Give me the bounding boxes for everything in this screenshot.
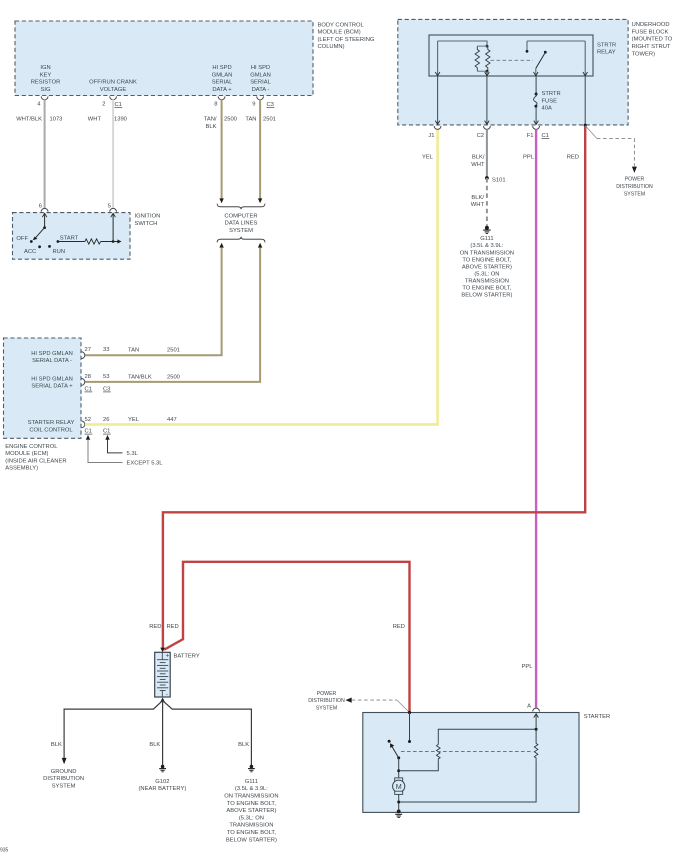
wire WHT 1390 (BCM pin 2 to ignition switch pin 5) (112, 100, 114, 209)
ignition pin 5 label (108, 204, 111, 210)
svg-text:53: 53 (103, 374, 109, 380)
label ACC (24, 249, 36, 255)
svg-text:2500: 2500 (167, 375, 180, 381)
arrow into computer data lines (left) (219, 198, 223, 203)
wire RED (B+ down, across, to battery) (163, 127, 585, 649)
svg-text:RED: RED (167, 624, 179, 630)
wire label RED (battery drop) (149, 624, 161, 630)
starter case ground symbol (395, 814, 402, 817)
ignition pin 6 entry arrow (42, 213, 47, 217)
arrow to ground distribution system (62, 758, 67, 764)
circuit label 1073 (50, 117, 63, 123)
wire from START to resistor (58, 241, 85, 243)
svg-text:TO ENGINE BOLT,: TO ENGINE BOLT, (227, 830, 276, 836)
svg-text:SYSTEM: SYSTEM (624, 191, 645, 197)
wire label WHT (88, 117, 102, 123)
EXCEPT 5.3L callout arrow (pin 52) (86, 435, 123, 463)
ignition switch label (135, 214, 161, 227)
wire TAN/BLK 2500 (BCM pin 8 down to data lines) (221, 100, 223, 199)
svg-text:28: 28 (85, 374, 91, 380)
hold-in coil lead to ground bus (399, 760, 536, 802)
svg-text:BLK/: BLK/ (471, 195, 484, 201)
svg-text:SYSTEM: SYSTEM (52, 783, 76, 789)
svg-text:SERIAL: SERIAL (212, 80, 233, 86)
label START (60, 235, 79, 241)
ground G111 (mid) symbol (483, 226, 491, 234)
svg-text:IGNITION: IGNITION (135, 214, 161, 220)
svg-text:WHT: WHT (88, 117, 102, 123)
relay switch blade (536, 51, 547, 69)
wire label RED (second battery lead) (167, 624, 179, 630)
power distribution system text (bottom) (308, 691, 345, 712)
relay coil bottom node (486, 70, 489, 73)
svg-text:2500: 2500 (224, 117, 237, 123)
svg-text:KEY: KEY (40, 72, 52, 78)
svg-text:OFF/RUN CRANK: OFF/RUN CRANK (89, 80, 137, 86)
svg-text:F1: F1 (527, 133, 534, 139)
node: ignition blade pivot (43, 226, 46, 229)
fuse block drop line F1 upper (535, 76, 537, 93)
relay pin B+ internal lead with arrow (583, 41, 588, 76)
node A junction (535, 728, 538, 731)
node B+ at fuse block edge (584, 124, 587, 127)
node solenoid fixed contact right (408, 740, 411, 743)
contact ACC (38, 245, 41, 248)
starter pin A internal lead (535, 714, 537, 730)
svg-text:POWER: POWER (625, 177, 645, 183)
battery negative junction wires (64, 701, 251, 765)
svg-text:MODULE (ECM): MODULE (ECM) (5, 451, 48, 457)
BCM internal label: OFF/RUN CRANK VOLTAGE (89, 80, 137, 93)
ECM pin 28/53 labels (85, 374, 110, 380)
solenoid switch lead down to motor (398, 758, 400, 778)
arrow up from data lines (right) (258, 243, 262, 248)
wire TAN 2501 (BCM pin 9 down to data lines) (259, 100, 261, 199)
contact OFF (30, 240, 33, 243)
svg-text:ENGINE CONTROL: ENGINE CONTROL (5, 444, 58, 450)
fuse block pin J1 cup (434, 126, 441, 129)
hold-in coil winding (534, 742, 538, 760)
svg-text:WHT: WHT (471, 202, 485, 208)
svg-text:TRANSMISSION: TRANSMISSION (229, 823, 273, 829)
wire BLK/WHT (C2 down to S101) (486, 129, 488, 178)
svg-text:G111: G111 (245, 779, 258, 785)
ECM pin 27 cup (81, 352, 84, 359)
svg-text:TAN/BLK: TAN/BLK (128, 375, 152, 381)
pull-in coil winding (437, 743, 441, 761)
wire resistor to pin 5 node (101, 241, 113, 243)
svg-text:(5.3L: ON: (5.3L: ON (474, 271, 499, 277)
ECM internal label: STARTER RELAY COIL CONTROL (28, 420, 75, 433)
wire label YEL row 3 (128, 417, 140, 423)
svg-text:52: 52 (85, 417, 91, 423)
svg-text:TAN/: TAN/ (204, 117, 217, 123)
contact RUN (48, 245, 51, 248)
wire label TAN/BLK row 2 (128, 375, 152, 381)
pin label F1 (527, 133, 534, 139)
svg-text:TAN: TAN (128, 348, 139, 354)
ground G102 symbol (159, 765, 166, 772)
wire label WHT/BLK (16, 117, 42, 123)
wire label BLK/WHT mid (471, 195, 485, 208)
svg-text:COLUMN): COLUMN) (318, 44, 345, 50)
svg-text:ON TRANSMISSION: ON TRANSMISSION (460, 250, 514, 256)
relay pin J1 internal lead with arrow (435, 41, 440, 76)
ignition pin 6 cup (41, 208, 48, 211)
ECM internal label: HI SPD GMLAN SERIAL DATA - (31, 351, 73, 364)
svg-text:2: 2 (102, 102, 105, 108)
svg-text:+: + (166, 652, 170, 659)
svg-text:COMPUTER: COMPUTER (224, 213, 257, 219)
node switch/coil junction (397, 769, 400, 772)
svg-text:YEL: YEL (128, 417, 140, 423)
label OFF (16, 236, 28, 242)
svg-text:TO ENGINE BOLT,: TO ENGINE BOLT, (227, 801, 276, 807)
starter label (584, 714, 611, 720)
svg-text:WHT: WHT (471, 162, 485, 168)
page number text (0, 848, 9, 853)
svg-text:BLK: BLK (149, 742, 160, 748)
relay coil (dual zigzag windings) (475, 46, 490, 71)
wire PPL (F1 down to starter A) (535, 129, 537, 708)
BCM pin 2 label (102, 102, 105, 108)
svg-text:RED: RED (393, 624, 405, 630)
arrow into battery positive (160, 648, 165, 653)
svg-text:SYSTEM: SYSTEM (229, 228, 253, 234)
wire TAN/BLK 2500 (data lines down to ECM pin 28) (85, 248, 260, 382)
svg-text:A: A (527, 704, 531, 710)
starter box (363, 713, 579, 813)
ECM pin 27/33 labels (85, 347, 110, 353)
svg-text:SERIAL DATA -: SERIAL DATA - (32, 358, 72, 364)
BCM internal label: HI SPD GMLAN SERIAL DATA + (212, 65, 233, 93)
wire label TAN (245, 117, 256, 123)
solenoid switch blade with arrowhead (390, 743, 400, 759)
svg-text:M: M (396, 782, 402, 791)
ignition pin 5 entry arrow (111, 213, 116, 217)
starter pin A entry arrow (534, 714, 539, 718)
ignition pin 6 label (39, 204, 42, 210)
svg-text:6: 6 (39, 204, 42, 210)
svg-text:(3.5L & 3.9L:: (3.5L & 3.9L: (470, 243, 503, 249)
BCM connector C1 label (115, 102, 123, 108)
wire label RED (starter feed) (393, 624, 405, 630)
label 5.3L (127, 451, 139, 457)
fuse block drop line B+ (584, 76, 586, 125)
svg-text:DATA +: DATA + (212, 87, 232, 93)
svg-text:27: 27 (85, 347, 91, 353)
circuit label 2501 (263, 117, 276, 123)
svg-text:1073: 1073 (50, 117, 63, 123)
wire label PPL below F1 (523, 155, 535, 161)
pin label C2 (477, 133, 484, 139)
motor lead down (398, 794, 400, 811)
svg-text:J1: J1 (428, 133, 434, 139)
power distribution callout (bottom) (345, 698, 409, 712)
ECM title text (5, 444, 66, 472)
svg-text:(MOUNTED TO: (MOUNTED TO (632, 37, 673, 43)
svg-text:G111: G111 (480, 236, 493, 242)
svg-text:RELAY: RELAY (597, 50, 616, 56)
ground G111 (bottom right) symbol (248, 765, 255, 772)
svg-text:-: - (166, 692, 168, 699)
wire label YEL below J1 (422, 155, 434, 161)
stub arrow right of pin 5 node (113, 239, 121, 243)
svg-text:1390: 1390 (114, 117, 127, 123)
circuit label 447 row 3 (167, 417, 177, 423)
relay top wire right (527, 40, 585, 42)
solenoid linkage dashed (401, 751, 533, 753)
svg-text:IGN: IGN (40, 65, 50, 71)
BCM internal label: HI SPD GMLAN SERIAL DATA - (250, 65, 271, 93)
brace upper (computer data lines) (217, 204, 265, 210)
computer data lines system text (224, 213, 257, 234)
contact START (57, 240, 60, 243)
node at pin 5 lead (112, 240, 115, 243)
ignition pin 6 internal lead (44, 213, 46, 227)
ECM connector labels C1 C3 row 2 (85, 387, 111, 393)
ECM pin 28 cup (81, 379, 84, 386)
svg-text:SERIAL DATA +: SERIAL DATA + (31, 384, 73, 390)
svg-text:POWER: POWER (317, 691, 337, 697)
svg-text:HI SPD GMLAN: HI SPD GMLAN (31, 351, 73, 357)
svg-text:ASSEMBLY): ASSEMBLY) (5, 466, 38, 472)
svg-text:COIL CONTROL: COIL CONTROL (29, 427, 73, 433)
fuse block drop line F1 lower (534, 106, 539, 124)
battery (155, 652, 171, 698)
starter pin A cup (533, 708, 540, 711)
ignition switch box (13, 213, 131, 260)
starter case ground node (397, 810, 401, 814)
svg-text:FUSE BLOCK: FUSE BLOCK (632, 29, 669, 35)
svg-text:FUSE: FUSE (542, 98, 558, 104)
pull-in coil lead to A junction (438, 729, 536, 742)
svg-text:26: 26 (103, 417, 109, 423)
STRTR FUSE 40A fuse symbol (534, 93, 538, 108)
svg-text:RED: RED (567, 155, 579, 161)
svg-text:DATA -: DATA - (252, 87, 270, 93)
svg-text:DISTRIBUTION: DISTRIBUTION (308, 698, 345, 704)
BCM internal label: IGN KEY RESISTOR SIG (31, 65, 61, 93)
BCM title text (318, 22, 375, 50)
node red feed at starter edge (408, 711, 411, 714)
svg-text:4: 4 (37, 102, 41, 108)
svg-text:(INSIDE AIR CLEANER: (INSIDE AIR CLEANER (5, 458, 66, 464)
svg-text:ACC: ACC (24, 249, 36, 255)
starter solenoid feed lead (409, 713, 411, 742)
5.3L callout arrow (pin 26) (105, 435, 122, 453)
wire junction to pull-in coil (399, 760, 439, 771)
body control module BCM box (15, 21, 313, 96)
svg-text:OFF: OFF (16, 236, 28, 242)
wire label BLK/WHT below C2 (471, 155, 485, 168)
starter relay box (429, 35, 593, 76)
BCM connector C3 label (267, 102, 275, 108)
svg-text:TRANSMISSION: TRANSMISSION (465, 279, 509, 285)
splice S101 (485, 176, 489, 180)
BCM pin 8 label (214, 102, 217, 108)
relay top wire left (438, 41, 487, 46)
ground G111 (mid) text (460, 236, 514, 298)
svg-text:DISTRIBUTION: DISTRIBUTION (616, 184, 653, 190)
svg-text:GROUND: GROUND (51, 769, 77, 775)
ECM connector labels C1 C1 row 3 (85, 429, 111, 435)
svg-text:ABOVE STARTER): ABOVE STARTER) (226, 808, 276, 814)
svg-text:EXCEPT 5.3L: EXCEPT 5.3L (127, 460, 164, 466)
brace lower (computer data lines) (217, 237, 265, 243)
ignition pin 5 internal lead (112, 213, 114, 241)
label BLK (center) (149, 742, 160, 748)
STRTR FUSE 40A label (542, 91, 561, 112)
ground distribution system text (43, 769, 84, 790)
svg-text:STRTR: STRTR (542, 91, 561, 97)
solenoid fixed contact left (388, 740, 391, 743)
svg-text:(3.5L & 3.9L:: (3.5L & 3.9L: (235, 786, 268, 792)
svg-text:ON TRANSMISSION: ON TRANSMISSION (224, 794, 278, 800)
svg-text:MODULE (BCM): MODULE (BCM) (318, 30, 361, 36)
svg-text:40A: 40A (542, 106, 552, 112)
svg-text:(LEFT OF STEERING: (LEFT OF STEERING (318, 37, 375, 43)
arrow up from data lines (left) (219, 243, 223, 248)
connector label C1 (542, 133, 550, 139)
label BLK (right) (238, 742, 249, 748)
circuit label 2501 row 1 (167, 348, 180, 354)
svg-text:BELOW STARTER): BELOW STARTER) (226, 837, 277, 843)
svg-text:HI SPD: HI SPD (212, 65, 231, 71)
BCM pin 9 label (252, 102, 255, 108)
svg-text:447: 447 (167, 417, 177, 423)
pin label J1 (428, 133, 434, 139)
arrow into battery negative (160, 698, 165, 703)
label RUN (53, 249, 66, 255)
wire YEL 447 (ECM to fuse block J1) (85, 129, 438, 424)
wire label TAN row 1 (128, 348, 139, 354)
relay switch lead to pin F1 with arrow (534, 68, 539, 76)
svg-text:SYSTEM: SYSTEM (316, 705, 337, 711)
svg-text:BELOW STARTER): BELOW STARTER) (461, 293, 512, 299)
wire label TAN/BLK (204, 117, 217, 130)
engine control module ECM box (4, 338, 82, 438)
circuit label 1390 (114, 117, 127, 123)
svg-text:TO ENGINE BOLT,: TO ENGINE BOLT, (462, 257, 511, 263)
svg-text:STARTER RELAY: STARTER RELAY (28, 420, 75, 426)
ground G111 (bottom) text (224, 779, 278, 843)
svg-text:HI SPD GMLAN: HI SPD GMLAN (31, 376, 73, 382)
ECM pin 52/26 labels (85, 417, 110, 423)
ignition pin 5 cup (110, 208, 117, 211)
ground G102 text (139, 779, 187, 792)
svg-text:33: 33 (103, 347, 109, 353)
svg-text:2501: 2501 (263, 117, 276, 123)
relay coil lead to pin C2 with arrow (485, 71, 490, 76)
underhood fuse block title (632, 22, 673, 57)
BCM pin 4 label (37, 102, 41, 108)
wire WHT/BLK 1073 (BCM pin 4 to ignition switch pin 6) (44, 100, 46, 209)
svg-text:GMLAN: GMLAN (250, 72, 271, 78)
svg-text:TAN: TAN (245, 117, 256, 123)
svg-text:TOWER): TOWER) (632, 51, 655, 57)
underhood fuse block box (398, 19, 628, 125)
BCM pin 9 cup (257, 96, 264, 99)
relay coil top node (486, 45, 489, 48)
label EXCEPT 5.3L (127, 460, 164, 466)
svg-text:G102: G102 (155, 779, 169, 785)
svg-text:RUN: RUN (53, 249, 66, 255)
svg-text:(NEAR BATTERY): (NEAR BATTERY) (139, 786, 187, 792)
svg-text:WHT/BLK: WHT/BLK (16, 117, 42, 123)
label S101 (492, 178, 506, 184)
BCM pin 2 cup (110, 96, 117, 99)
svg-text:BLK: BLK (51, 742, 62, 748)
svg-text:8: 8 (214, 102, 217, 108)
power distribution callout top right: diagonal + dashed route (585, 126, 637, 173)
fuse block pin F1 cup (533, 126, 540, 129)
hold-in coil top lead (535, 729, 537, 742)
svg-text:2501: 2501 (167, 348, 180, 354)
svg-text:TO ENGINE BOLT,: TO ENGINE BOLT, (462, 286, 511, 292)
starter pin A label (527, 704, 531, 710)
svg-text:BODY CONTROL: BODY CONTROL (318, 22, 365, 28)
svg-text:HI SPD: HI SPD (251, 65, 270, 71)
circuit label 2500 (224, 117, 237, 123)
fuse block drop line J1 (435, 76, 440, 124)
power distribution system text (top right) (616, 177, 653, 198)
svg-text:DISTRIBUTION: DISTRIBUTION (43, 776, 84, 782)
svg-text:BLK: BLK (206, 124, 217, 130)
svg-text:5.3L: 5.3L (127, 451, 139, 457)
svg-text:BLK: BLK (238, 742, 249, 748)
fuse block drop line C2 (485, 76, 490, 124)
svg-text:RED: RED (149, 624, 161, 630)
BCM pin 4 cup (41, 96, 48, 99)
svg-text:VOLTAGE: VOLTAGE (100, 87, 127, 93)
svg-text:SWITCH: SWITCH (135, 221, 158, 227)
svg-text:SIG: SIG (41, 87, 51, 93)
starter relay label (597, 42, 616, 55)
ECM internal label: HI SPD GMLAN SERIAL DATA + (31, 376, 73, 389)
svg-text:935: 935 (0, 848, 9, 853)
wire RED (battery to starter feed) (164, 562, 409, 713)
resistor in ignition switch (85, 239, 101, 244)
battery label (174, 654, 200, 660)
svg-text:YEL: YEL (422, 155, 434, 161)
svg-text:SERIAL: SERIAL (250, 80, 271, 86)
svg-text:PPL: PPL (523, 155, 535, 161)
svg-text:ABOVE STARTER): ABOVE STARTER) (462, 264, 512, 270)
relay fixed contact stub (526, 41, 529, 53)
svg-text:RESISTOR: RESISTOR (31, 80, 61, 86)
label BLK (left) (51, 742, 62, 748)
svg-text:S101: S101 (492, 178, 506, 184)
ECM pin 52 cup (81, 421, 84, 428)
svg-text:RIGHT STRUT: RIGHT STRUT (632, 44, 671, 50)
svg-text:START: START (60, 235, 79, 241)
svg-text:UNDERHOOD: UNDERHOOD (632, 22, 670, 28)
node motor/coil ground junction (397, 801, 400, 804)
fuse block pin C2 cup (484, 126, 491, 129)
svg-text:C2: C2 (477, 133, 484, 139)
svg-text:BLK/: BLK/ (472, 155, 485, 161)
svg-text:DATA LINES: DATA LINES (225, 221, 258, 227)
wire BLK/WHT dashed (S101 to G111) (486, 178, 488, 226)
wire label RED below B+ (567, 155, 579, 161)
wire label PPL mid (522, 664, 534, 670)
svg-text:GMLAN: GMLAN (212, 72, 233, 78)
svg-text:STRTR: STRTR (597, 42, 616, 48)
arrow into computer data lines (right) (258, 198, 262, 203)
starter motor M (393, 778, 405, 795)
svg-text:9: 9 (252, 102, 255, 108)
